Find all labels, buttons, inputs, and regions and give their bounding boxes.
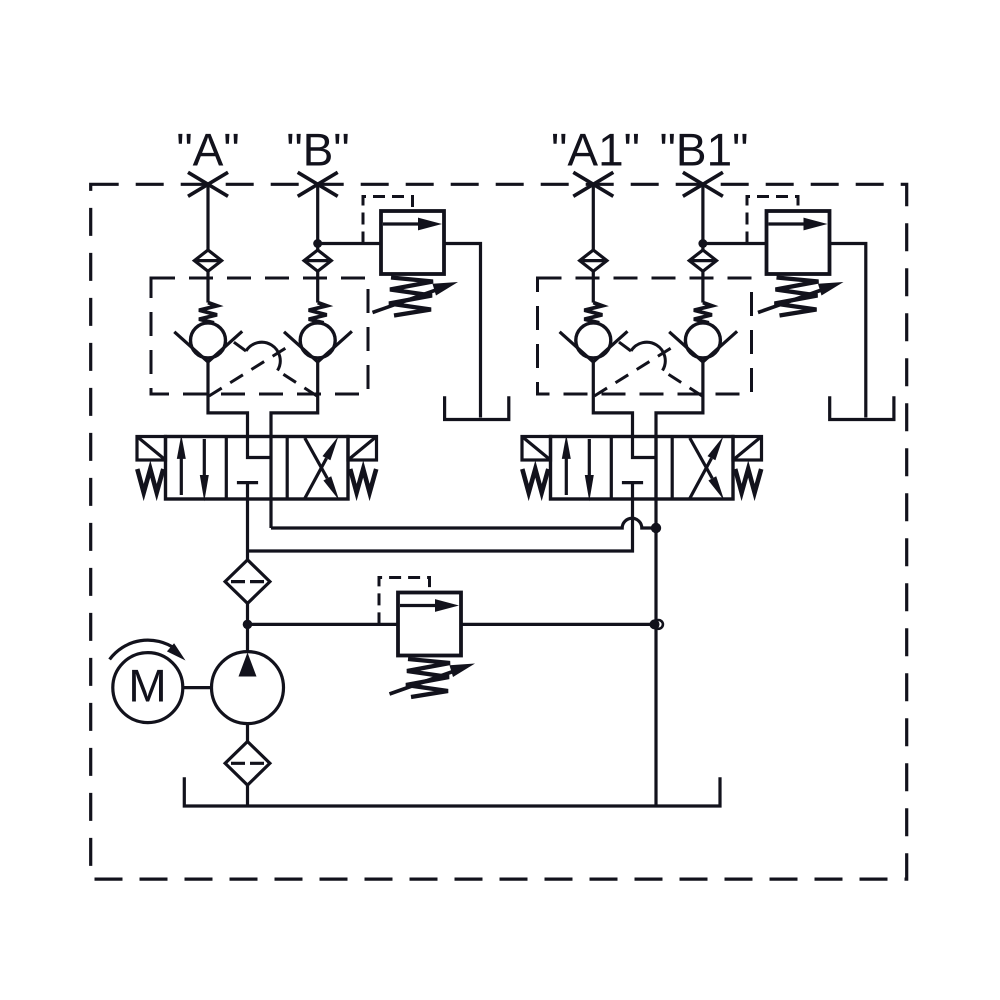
label port B1 — [662, 134, 747, 166]
wire B1 to check — [701, 271, 704, 302]
wire B to check — [316, 271, 319, 302]
filter pressure line — [225, 560, 270, 604]
orifice B — [304, 250, 331, 271]
label port A — [178, 134, 237, 166]
wire port A1 down — [592, 184, 595, 250]
wire relief top right outlet — [830, 244, 866, 418]
orifice A1 — [580, 250, 607, 271]
node B1 junction dot — [698, 239, 707, 248]
pilot line B to A check — [233, 342, 317, 397]
pilot bridge arc left — [246, 342, 280, 370]
wire right T down to tank — [654, 437, 657, 807]
tank symbol top left — [445, 396, 509, 419]
wire port B down — [316, 184, 319, 250]
tank symbol top right — [830, 396, 894, 419]
wire relief top left outlet — [444, 244, 481, 418]
enclosure dashed border — [91, 184, 907, 879]
port B1 closed symbol — [683, 172, 723, 196]
pilot line A1 to B1 check — [594, 346, 674, 396]
tank line — [184, 777, 720, 806]
pilot line relief top right — [747, 197, 798, 244]
port A closed symbol — [188, 172, 228, 196]
port A1 closed symbol — [573, 172, 613, 196]
wire filter to pump — [246, 603, 249, 652]
wire port B1 down — [701, 184, 704, 250]
check valve A — [174, 303, 242, 362]
node relief outlet ring — [654, 620, 663, 629]
pilot bridge arc right — [631, 342, 665, 370]
node pump outlet dot — [243, 620, 253, 630]
label port A1 — [553, 134, 638, 166]
wire A1 to check — [592, 271, 595, 302]
wire pump to suction filter — [246, 724, 249, 742]
label port B — [288, 134, 347, 166]
orifice B1 — [689, 250, 716, 271]
wire A to check — [206, 271, 209, 302]
wire port A down — [206, 184, 209, 250]
motor rotation arrow — [110, 640, 175, 659]
relief valve top left — [373, 211, 459, 316]
pump — [212, 652, 284, 724]
directional valve right — [522, 435, 762, 502]
dual pilot check dashed box right — [538, 278, 752, 394]
wire suction filter to tank line — [246, 785, 249, 806]
check valve B — [284, 303, 352, 362]
wire A seat to valve — [208, 362, 248, 437]
pump flow triangle — [239, 653, 257, 677]
node T junction dot — [651, 523, 661, 533]
wire B1 to relief inlet — [703, 242, 767, 245]
wire B1 seat to valve — [656, 362, 703, 437]
filter suction — [225, 742, 270, 786]
node B junction dot — [313, 239, 322, 248]
relief valve middle — [390, 593, 476, 698]
wire left T down — [269, 499, 272, 528]
wire A1 seat to valve — [593, 362, 632, 437]
pilot line relief middle — [379, 578, 430, 625]
port B closed symbol — [298, 172, 338, 196]
check valve A1 — [560, 303, 628, 362]
pilot line A to B check — [209, 346, 289, 396]
orifice A — [194, 250, 221, 271]
wire left P down — [246, 499, 249, 560]
wire motor to pump — [183, 686, 212, 689]
check valve B1 — [669, 303, 737, 362]
dual pilot check dashed box left — [151, 278, 368, 394]
pilot line relief top left — [363, 197, 413, 244]
node relief outlet junction — [650, 619, 660, 629]
wire T line with bridge to right — [271, 518, 656, 528]
wire P crossover to right valve — [248, 499, 633, 551]
wire relief middle outlet — [461, 623, 651, 626]
wire pump to relief middle inlet — [248, 623, 399, 626]
wire B seat to valve — [271, 362, 318, 437]
wire B to relief inlet — [318, 242, 381, 245]
electric motor M — [113, 653, 183, 723]
motor letter — [132, 670, 163, 702]
directional valve left — [137, 435, 377, 502]
pilot line B1 to A1 check — [618, 342, 702, 397]
relief valve top right — [758, 211, 844, 316]
